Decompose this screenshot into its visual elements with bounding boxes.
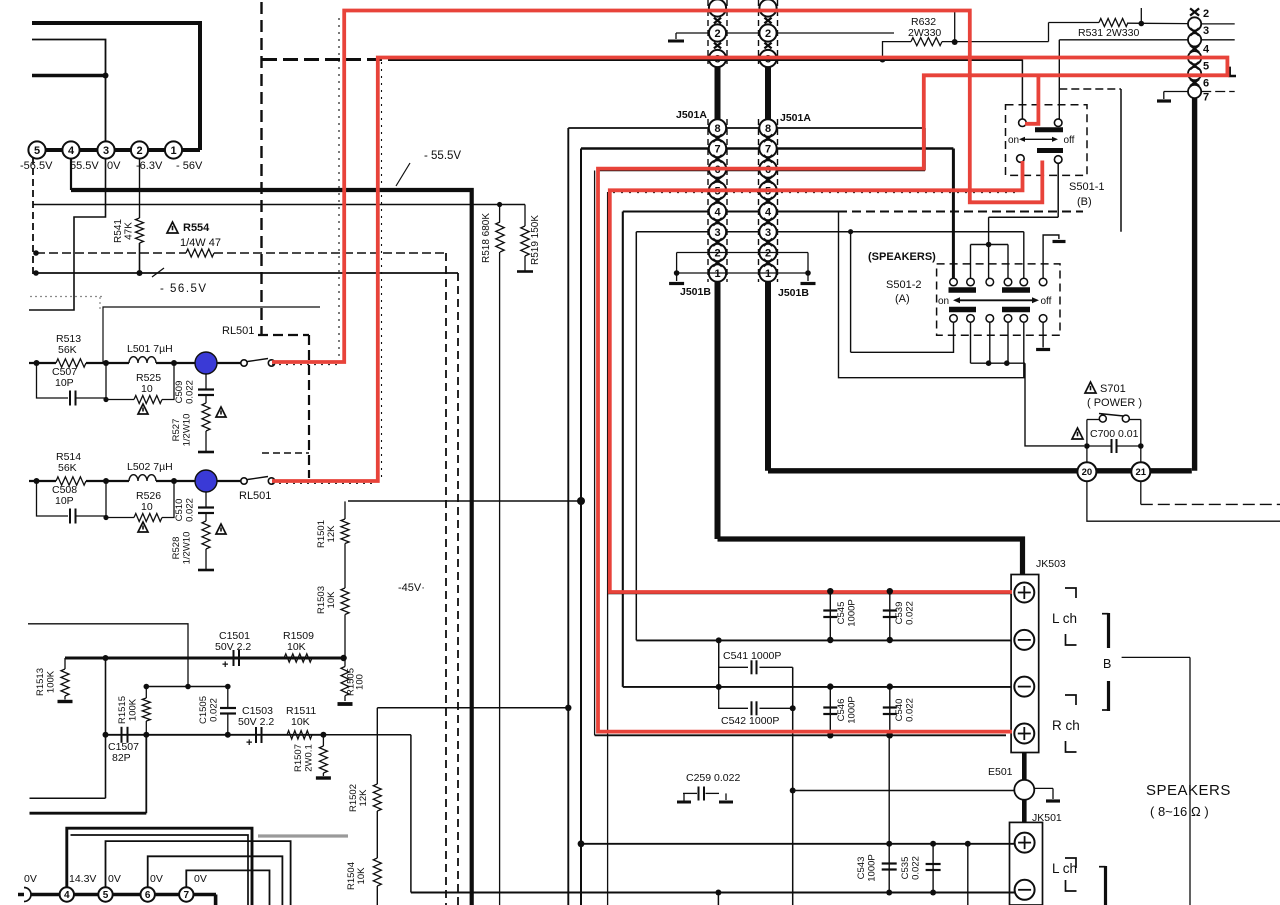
svg-text:3: 3	[1203, 25, 1209, 37]
svg-text:82P: 82P	[112, 752, 131, 764]
junction	[103, 397, 108, 402]
wire x105 vertical	[105, 658, 107, 798]
wire dashed vertical x458	[457, 273, 459, 905]
resistor R554	[186, 249, 214, 257]
wire from node 4 down	[70, 159, 72, 191]
connector pin 7	[759, 140, 776, 157]
wire row1	[29, 362, 56, 364]
wire	[105, 481, 107, 518]
bowtie	[764, 259, 773, 266]
svg-text:100K: 100K	[46, 670, 57, 693]
svg-text:R554: R554	[183, 222, 210, 234]
svg-text:(SPEAKERS): (SPEAKERS)	[868, 251, 936, 263]
bracket B	[1107, 613, 1110, 648]
switch bar	[1037, 148, 1063, 153]
wire dotted	[381, 62, 383, 478]
wire pin20 down	[1087, 481, 1280, 521]
wire contact6	[1043, 235, 1059, 278]
junction	[880, 57, 886, 63]
junction big	[577, 497, 585, 505]
relay RL501 dashed linkage	[260, 2, 262, 335]
bowtie	[764, 176, 773, 183]
junction	[143, 732, 149, 738]
resistor R1513	[61, 669, 69, 696]
junction	[827, 588, 833, 594]
warning triangle	[138, 522, 148, 532]
junction	[887, 732, 893, 738]
wire J501B thick left	[715, 282, 721, 540]
svg-text:L ch: L ch	[1052, 611, 1077, 626]
svg-text:2: 2	[765, 247, 771, 259]
switch bar	[949, 307, 976, 313]
svg-text:10K: 10K	[326, 591, 337, 609]
svg-text:1/2W10: 1/2W10	[182, 532, 193, 565]
wire x215 thick	[214, 895, 218, 905]
wire dotted	[338, 18, 340, 358]
resistor R531	[1099, 19, 1128, 27]
svg-text:1: 1	[714, 268, 720, 280]
svg-text:5: 5	[1203, 61, 1209, 73]
capacitor C540	[889, 687, 891, 736]
bowtie	[713, 197, 722, 204]
svg-text:0.022: 0.022	[185, 380, 196, 404]
capacitor C542	[751, 701, 753, 715]
wire under-red D h	[608, 593, 1011, 595]
junction	[887, 683, 893, 689]
svg-text:10K: 10K	[356, 867, 367, 885]
svg-text:C543: C543	[856, 857, 867, 880]
svg-text:C545: C545	[836, 602, 847, 625]
svg-text:R1513: R1513	[35, 668, 46, 696]
wire	[106, 517, 134, 519]
connector dashed outline	[758, 0, 760, 64]
junction	[103, 515, 108, 520]
node 1	[165, 141, 182, 158]
switch bar	[1002, 287, 1030, 293]
connector JK503 box	[1011, 575, 1039, 753]
bowtie	[764, 197, 773, 204]
resistor R1513 wire	[64, 658, 66, 669]
connector pin 7	[709, 140, 726, 157]
inductor L502	[129, 475, 156, 481]
svg-text:1000P: 1000P	[847, 599, 858, 626]
svg-text:1/2W10: 1/2W10	[182, 414, 193, 447]
ground	[1164, 91, 1188, 93]
switch contact bottom	[967, 315, 975, 323]
wire	[676, 253, 678, 274]
wire JK503 minus1 feed	[636, 639, 1011, 641]
wire	[205, 395, 207, 403]
wire lower contact	[1057, 163, 1059, 217]
svg-text:C546: C546	[836, 699, 847, 722]
resistor R1504	[373, 858, 381, 886]
blue node B	[195, 470, 217, 492]
wire y501	[348, 500, 581, 502]
svg-text:1/4W 47: 1/4W 47	[180, 237, 221, 249]
svg-text:2W0.1: 2W0.1	[304, 744, 315, 771]
svg-text:C1505: C1505	[198, 696, 209, 724]
wire row2	[29, 480, 56, 482]
capacitor C510	[198, 506, 214, 508]
junction	[320, 732, 326, 738]
svg-text:RL501: RL501	[239, 490, 271, 502]
bowtie	[764, 239, 773, 246]
node 2	[131, 141, 148, 158]
resistor R527	[202, 403, 210, 431]
svg-text:21: 21	[1136, 467, 1147, 478]
warning triangle	[216, 407, 226, 417]
switch S701 contact	[1122, 415, 1129, 422]
wire y253 dash	[36, 252, 186, 254]
wire	[524, 256, 526, 271]
wire	[970, 245, 972, 279]
warning triangle	[1085, 382, 1096, 393]
svg-text:C510: C510	[174, 499, 185, 522]
connector pin 3	[709, 223, 726, 240]
switch contact	[1054, 119, 1062, 127]
junction	[185, 684, 191, 690]
switch contact top	[1020, 278, 1028, 286]
blue node A	[195, 352, 217, 374]
wire	[807, 253, 809, 274]
switch blade	[1099, 414, 1124, 417]
svg-text:5: 5	[34, 145, 40, 157]
svg-text:L ch: L ch	[1052, 861, 1077, 876]
wire step	[1048, 23, 1050, 42]
connector pin 5	[759, 182, 776, 199]
junction	[103, 478, 109, 484]
wire	[1059, 39, 1188, 41]
junction	[33, 250, 39, 256]
capacitor C541	[751, 660, 753, 674]
wire	[1035, 787, 1053, 789]
svg-text:0V: 0V	[150, 873, 163, 885]
capacitor C539	[889, 592, 891, 641]
wire	[86, 362, 129, 364]
wire pin7 riser	[186, 870, 269, 905]
switch bar	[1035, 127, 1063, 132]
junction	[887, 637, 893, 643]
junction	[827, 637, 833, 643]
resistor R1507	[322, 735, 324, 746]
capacitor C508 branch	[37, 481, 69, 516]
bowtie	[1190, 62, 1199, 69]
connector pin 6	[759, 160, 776, 177]
node 6	[141, 887, 155, 901]
connector pin 3	[759, 223, 776, 240]
bracket	[1104, 866, 1107, 905]
junction	[103, 655, 109, 661]
wire	[971, 244, 1009, 246]
svg-text:4: 4	[68, 145, 75, 157]
wire from node 3 down	[29, 159, 106, 311]
wire y843.8	[581, 843, 1015, 845]
wire bc6 ground	[1042, 322, 1044, 347]
wire dotted under red	[272, 482, 375, 484]
wire	[86, 480, 129, 482]
svg-text:( 8~16 Ω ): ( 8~16 Ω )	[1150, 804, 1209, 819]
ground	[1052, 788, 1054, 799]
svg-text:E501: E501	[988, 766, 1013, 778]
wire thick y470	[768, 468, 1192, 473]
svg-text:1: 1	[170, 145, 176, 157]
svg-text:RL501: RL501	[222, 325, 254, 337]
junction	[578, 840, 585, 847]
resistor R525	[134, 396, 162, 404]
svg-text:on: on	[1008, 135, 1019, 146]
svg-text:14.3V: 14.3V	[69, 873, 96, 885]
resistor R514	[56, 477, 86, 485]
wire y707.8	[377, 707, 568, 709]
wire pin7 bus	[581, 147, 953, 149]
bowtie	[714, 18, 721, 24]
wire y623	[28, 624, 188, 687]
svg-text:3: 3	[765, 227, 771, 239]
junction	[986, 242, 992, 248]
wire x105 foot	[30, 797, 106, 799]
ground	[675, 33, 677, 39]
wire to pin20	[1025, 363, 1084, 446]
red path D	[610, 161, 1023, 592]
wire pin2 row	[677, 252, 808, 254]
wire black tick	[1230, 67, 1236, 76]
svg-text:off: off	[1041, 296, 1052, 307]
wire	[205, 513, 207, 521]
switch arrow	[1023, 138, 1054, 140]
wire bc4	[1007, 322, 1009, 363]
warning triangle	[167, 222, 178, 233]
wire	[760, 666, 793, 668]
svg-text:4: 4	[64, 890, 70, 901]
wire S501-2 bc1	[851, 322, 954, 352]
bracket L ch	[1065, 858, 1076, 868]
svg-text:5: 5	[103, 890, 109, 901]
svg-text:C509: C509	[174, 381, 185, 404]
ground	[719, 792, 726, 794]
wire	[205, 431, 207, 452]
wire contact5 riser	[1023, 232, 1025, 278]
switch contact bottom	[1039, 315, 1047, 323]
svg-text:- 56.5V: - 56.5V	[160, 283, 208, 295]
svg-text:R519 150K: R519 150K	[530, 215, 541, 265]
wire dashline	[1059, 88, 1121, 90]
wire pin21 down	[1140, 481, 1142, 504]
node E501	[1014, 780, 1034, 800]
svg-text:(B): (B)	[1077, 196, 1092, 208]
svg-text:2: 2	[714, 247, 720, 259]
wire pin6 riser	[148, 856, 283, 905]
junction	[952, 39, 958, 45]
wire pin1 row	[677, 272, 808, 274]
wire x1121	[1120, 89, 1122, 232]
junction	[716, 684, 722, 690]
svg-text:C535: C535	[900, 857, 911, 880]
wire thick	[1022, 753, 1027, 780]
svg-text:10K: 10K	[287, 641, 306, 653]
resistor R632	[911, 38, 942, 46]
junction	[848, 229, 853, 234]
wire gray	[258, 834, 348, 837]
junction	[827, 683, 833, 689]
node 4	[62, 141, 79, 158]
node 7	[179, 887, 193, 901]
junction	[103, 360, 109, 366]
wire under-red D v	[607, 192, 609, 905]
half pin	[24, 888, 31, 902]
junction	[497, 202, 502, 207]
resistor R1509	[284, 654, 312, 662]
svg-text:off: off	[1064, 135, 1075, 146]
wire	[954, 12, 956, 42]
svg-text:J501A: J501A	[780, 112, 811, 124]
wire gray dotted	[99, 297, 101, 311]
junction dot	[103, 73, 109, 79]
wire	[156, 480, 196, 482]
svg-text:C539: C539	[894, 602, 905, 625]
svg-text:S701: S701	[1100, 383, 1126, 395]
switch contact top	[950, 278, 958, 286]
wire y892.5	[411, 892, 1015, 894]
switch contact bottom	[1004, 315, 1012, 323]
warning triangle	[1072, 428, 1083, 439]
svg-text:10P: 10P	[55, 377, 74, 389]
wire dashed vertical x446	[445, 253, 447, 905]
svg-text:0.022: 0.022	[905, 601, 916, 625]
wire x792 vertical	[792, 667, 794, 905]
junction	[790, 705, 796, 711]
relay dashed	[308, 335, 310, 478]
resistor R541	[136, 218, 144, 243]
svg-text:20: 20	[1082, 467, 1093, 478]
wire blade	[248, 359, 269, 362]
svg-text:7: 7	[765, 143, 771, 155]
svg-text:4: 4	[1203, 44, 1210, 56]
wire dotted under red	[272, 364, 342, 366]
wire pin3 vertical	[635, 232, 637, 641]
wire thick bus y190	[71, 190, 472, 905]
wire bc3	[989, 322, 991, 363]
capacitor C546	[829, 687, 831, 736]
capacitor C510 wire	[205, 492, 207, 508]
junction	[930, 841, 936, 847]
relay dashed	[258, 334, 309, 336]
switch S501-1 dashed box	[1006, 105, 1088, 176]
switch S701 contact	[1099, 415, 1106, 422]
wire thick row	[18, 893, 216, 897]
junction	[1139, 21, 1145, 27]
wire	[971, 362, 1026, 364]
wire	[1058, 40, 1060, 119]
wire	[1087, 419, 1099, 421]
connector pin 5	[709, 182, 726, 199]
wire pin4 riser thick	[67, 828, 252, 905]
red path A	[272, 11, 1042, 363]
svg-text:3: 3	[714, 227, 720, 239]
connector JK501 box	[1010, 822, 1043, 905]
svg-text:12K: 12K	[326, 525, 337, 543]
wire x146 riser	[145, 735, 147, 813]
junction	[103, 732, 109, 738]
junction	[33, 270, 39, 276]
capacitor C542 wire	[719, 687, 748, 708]
wire R541 bottom	[139, 243, 141, 273]
svg-text:8: 8	[714, 123, 720, 135]
svg-text:- 56V: - 56V	[176, 160, 203, 172]
junction	[34, 360, 40, 366]
wire stub x718	[718, 640, 720, 687]
wire from node 2 down	[139, 159, 141, 219]
junction	[225, 684, 231, 690]
junction	[674, 270, 680, 276]
wire y790.5	[793, 790, 1014, 792]
svg-text:S501-2: S501-2	[886, 279, 921, 291]
wire	[205, 549, 207, 570]
wire pin4 riser second	[71, 835, 249, 905]
svg-text:B: B	[1103, 657, 1111, 671]
wire pin8 bus	[568, 127, 925, 129]
wire dotted under red D	[613, 192, 1020, 194]
wire stub	[717, 893, 719, 905]
svg-text:2: 2	[1203, 8, 1209, 20]
switch contact top	[967, 278, 975, 286]
svg-text:0.022: 0.022	[905, 698, 916, 722]
connector circle	[1188, 33, 1201, 46]
wire pin4 bus	[623, 210, 838, 212]
junction	[887, 588, 893, 594]
wire thick y813	[30, 812, 147, 815]
node 5	[98, 887, 112, 901]
connector pin 1	[709, 264, 726, 281]
switch contact top	[1004, 278, 1012, 286]
wire right vertical	[1189, 657, 1191, 905]
wire x933	[932, 844, 934, 893]
terminal bar	[517, 270, 533, 273]
svg-text:0.022: 0.022	[209, 698, 220, 722]
svg-text:4: 4	[765, 206, 772, 218]
bowtie	[764, 155, 773, 162]
red branch	[1025, 75, 1038, 124]
junction	[340, 655, 346, 661]
relay contact RL501 a	[241, 360, 247, 366]
resistor R518	[496, 222, 504, 252]
wire	[760, 707, 793, 709]
switch contact bottom	[986, 315, 994, 323]
relay contact RL501 d	[268, 478, 274, 484]
connector dashed outline	[758, 119, 760, 282]
connector pin 4	[759, 203, 776, 220]
svg-text:R531 2W330: R531 2W330	[1078, 27, 1139, 39]
connector circle	[1188, 51, 1201, 64]
capacitor C1505	[227, 687, 229, 708]
svg-text:2: 2	[714, 28, 720, 40]
bracket L ch	[1065, 588, 1076, 598]
connector dashed outline	[707, 0, 709, 64]
capacitor C507 branch	[37, 363, 69, 398]
resistor chain R1502	[376, 708, 378, 784]
junction	[827, 732, 833, 738]
terminal - Rch	[1014, 677, 1034, 697]
svg-text:55.5V: 55.5V	[70, 160, 99, 172]
terminal bar	[198, 451, 214, 454]
terminal -	[1015, 880, 1035, 900]
wire	[217, 362, 241, 364]
svg-text:47K: 47K	[124, 222, 135, 240]
wire	[988, 217, 990, 278]
ground right	[725, 793, 727, 800]
svg-text:0.022: 0.022	[911, 856, 922, 880]
bowtie	[1190, 8, 1199, 15]
junction	[827, 588, 833, 594]
